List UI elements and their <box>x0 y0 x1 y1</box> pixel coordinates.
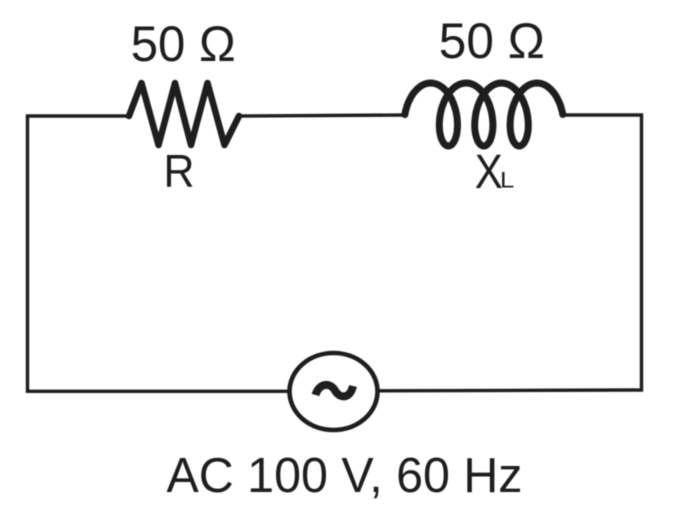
svg-text:AC 100 V, 60 Hz: AC 100 V, 60 Hz <box>167 449 523 503</box>
svg-text:50 Ω: 50 Ω <box>131 16 236 72</box>
inductor XL coil <box>405 83 563 146</box>
wire: top-left segment to resistor <box>26 114 130 117</box>
resistor R <box>129 83 239 145</box>
svg-text:X: X <box>475 146 503 199</box>
wire: top-middle segment between resistor and inductor <box>238 115 406 116</box>
svg-text:L: L <box>500 168 514 193</box>
wire: top-right segment from inductor <box>562 113 643 116</box>
svg-text:50 Ω: 50 Ω <box>439 13 545 69</box>
AC source circle <box>290 353 378 430</box>
svg-text:R: R <box>164 145 195 197</box>
wire: left vertical + bottom-left segment <box>28 116 289 391</box>
wire: right vertical + bottom-right segment <box>379 116 642 391</box>
AC source tilde <box>316 385 354 396</box>
